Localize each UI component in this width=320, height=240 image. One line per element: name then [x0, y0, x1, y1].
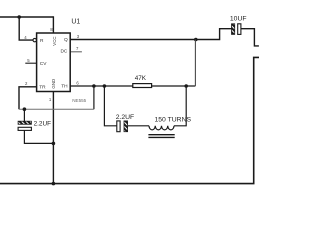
wire drop from node b to C3	[104, 86, 116, 126]
svg-text:2.2UF: 2.2UF	[116, 114, 135, 121]
capacitor C3 2.2UF plates middle	[117, 121, 120, 132]
svg-text:150 TURNS: 150 TURNS	[155, 117, 192, 124]
svg-text:TR: TR	[39, 85, 46, 91]
svg-text:DC: DC	[60, 48, 67, 54]
wire C2 top lead	[23, 109, 25, 121]
wire riser to output node	[194, 40, 196, 87]
node junction C2 to gnd wire	[52, 142, 56, 146]
wire C3 to coil	[128, 125, 149, 127]
svg-text:NE555: NE555	[72, 98, 86, 103]
capacitor C1 10UF plates	[232, 24, 235, 35]
svg-text:10UF: 10UF	[230, 16, 247, 23]
wire to reset pin 4	[19, 17, 33, 40]
wire top supply rail	[0, 16, 53, 18]
wire coil right riser	[174, 86, 186, 126]
capacitor C2 2.2UF plates bottom-left	[18, 121, 31, 124]
pin bubble reset	[33, 38, 36, 41]
wire gray horizontal under IC	[19, 108, 94, 110]
wire drop from node a	[93, 86, 95, 109]
inductor core lines	[148, 135, 174, 138]
svg-text:GND: GND	[51, 79, 56, 89]
node junction TH line b	[103, 84, 107, 88]
wire TH pin 6 / resistor line	[70, 85, 195, 87]
svg-text:47K: 47K	[135, 75, 147, 82]
wire VCC pin 8 drop	[52, 16, 54, 34]
wire DC pin 7 stub	[70, 51, 82, 53]
svg-text:Q: Q	[64, 37, 68, 43]
wire from C 10UF right to edge	[241, 29, 259, 46]
svg-text:VCC: VCC	[52, 36, 57, 45]
svg-text:2.2UF: 2.2UF	[34, 120, 51, 127]
node junction TH line c	[184, 84, 188, 88]
node junction TH line a	[92, 84, 96, 88]
node junction on output line	[194, 38, 198, 42]
svg-text:CV: CV	[40, 61, 47, 67]
node junction at bottom rail	[52, 182, 56, 186]
wire C2 bottom lead	[24, 131, 53, 144]
wire CV pin 5 stub	[25, 62, 36, 64]
resistor R 47K	[133, 84, 152, 88]
wire GND pin 1 down	[52, 92, 54, 184]
op-amp U1 555 timer body	[37, 33, 71, 92]
wire TR pin 2 branch	[19, 87, 37, 109]
node junction top-left	[17, 15, 21, 19]
wire output Q pin 3 line	[70, 29, 231, 40]
svg-text:R: R	[40, 38, 44, 44]
node junction above C2	[23, 107, 27, 111]
inductor L1 150 TURNS coil	[149, 126, 174, 130]
wire right edge return / ground rail	[0, 57, 259, 183]
svg-text:TH: TH	[61, 83, 68, 89]
svg-text:U1: U1	[71, 18, 80, 25]
